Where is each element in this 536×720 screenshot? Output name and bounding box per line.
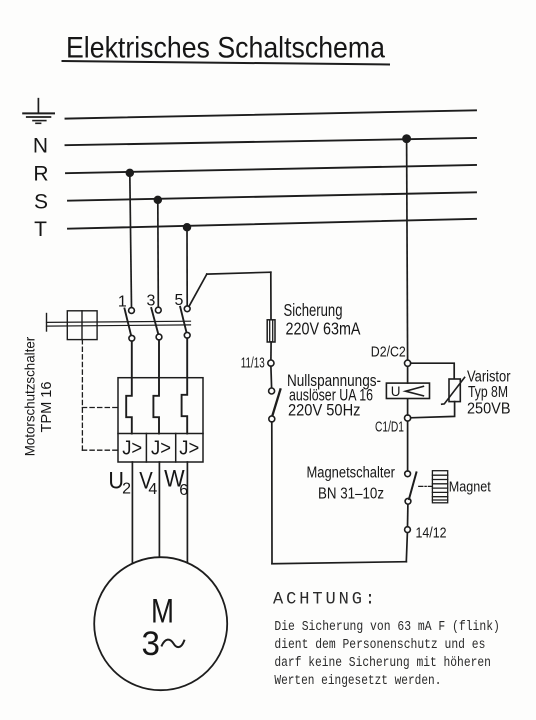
- svg-text:Elektrisches Schaltschema: Elektrisches Schaltschema: [66, 32, 385, 65]
- contact 5 lower terminal: [184, 332, 190, 338]
- svg-text:R: R: [33, 163, 48, 186]
- magnet switch upper terminal: [405, 471, 411, 477]
- wire: 14/12 to magnet switch: [407, 504, 409, 527]
- wire: S drop to contact 3: [157, 200, 160, 307]
- contact 5 upper terminal: [184, 306, 190, 312]
- motor lead V: [158, 462, 160, 557]
- svg-text:6: 6: [179, 482, 188, 499]
- svg-text:J>: J>: [151, 436, 171, 459]
- contact 1 upper terminal: [129, 308, 135, 314]
- svg-text:Varistor: Varistor: [467, 369, 511, 386]
- ground (earth) symbol: [23, 99, 54, 124]
- magnet core symbol: [432, 471, 447, 503]
- auslöser switch blade: [272, 389, 280, 416]
- title: Elektrisches Schaltschema: [66, 32, 385, 65]
- svg-text:BN 31–10z: BN 31–10z: [318, 486, 384, 503]
- contact 3 lower terminal: [156, 334, 162, 340]
- junction dot on N (right): [403, 135, 410, 142]
- linkage bar lower: [47, 325, 191, 326]
- svg-text:3: 3: [147, 293, 156, 310]
- wire: varistor branch top: [411, 363, 455, 379]
- bus line N: [66, 138, 477, 145]
- dashed trip linkage to thermal box: [82, 407, 118, 409]
- contact 3 upper terminal: [155, 307, 161, 313]
- svg-text:220V 50Hz: 220V 50Hz: [288, 400, 361, 419]
- svg-text:J>: J>: [179, 436, 199, 459]
- dashed trip linkage to J> row: [82, 449, 118, 451]
- wire: 11/13 to switch: [270, 366, 273, 388]
- junction dot on S: [154, 197, 161, 204]
- actuator box divider: [81, 311, 83, 340]
- contact 3 blade: [151, 308, 158, 334]
- label V4: [139, 467, 157, 498]
- svg-text:C1/D1: C1/D1: [375, 420, 404, 436]
- thermal element phase 1: [126, 341, 132, 433]
- svg-text:2: 2: [122, 481, 131, 498]
- svg-text:Die Sicherung von 63 mA F (fli: Die Sicherung von 63 mA F (flink): [274, 619, 500, 635]
- magnet switch lower terminal: [405, 498, 411, 504]
- wire: fuse to terminal 11/13: [270, 342, 272, 360]
- title underline: [63, 61, 390, 65]
- linkage left cap: [46, 314, 48, 332]
- wire: T drop to contact 5: [186, 227, 188, 306]
- svg-text:4: 4: [148, 481, 157, 498]
- wire: varistor branch bottom: [411, 402, 455, 418]
- wire: magnet switch up to C1/D1: [407, 422, 409, 471]
- fuse F1 body: [267, 320, 275, 342]
- junction dot on T: [184, 224, 191, 231]
- magnet switch blade: [409, 472, 416, 499]
- node D2/C2: [405, 360, 411, 366]
- svg-text:J>: J>: [122, 436, 142, 459]
- bus line R: [66, 165, 476, 173]
- label U2: [108, 468, 131, 498]
- varistor diagonal: [442, 377, 465, 404]
- svg-text:dient dem Personenschutz und e: dient dem Personenschutz und es: [274, 637, 485, 653]
- svg-text:3: 3: [142, 625, 161, 663]
- svg-text:Magnetschalter: Magnetschalter: [307, 465, 396, 482]
- motor lead W: [186, 462, 188, 563]
- wire: bottom rail: [272, 562, 406, 564]
- svg-text:Motorschutzschalter: Motorschutzschalter: [23, 336, 38, 456]
- J> row divider 2: [175, 434, 177, 463]
- node C1/D1: [405, 415, 411, 421]
- svg-text:Werten eingesetzt werden.: Werten eingesetzt werden.: [274, 673, 441, 689]
- thermal relay box: [118, 378, 203, 462]
- svg-text:Typ 8M: Typ 8M: [468, 384, 508, 401]
- wire: horizontal to fuse: [207, 272, 271, 274]
- linkage bar upper: [47, 321, 191, 322]
- motor lead U: [131, 462, 133, 564]
- svg-text:U: U: [391, 384, 401, 399]
- terminal 11/13: [268, 360, 274, 366]
- svg-text:darf keine Sicherung mit höher: darf keine Sicherung mit höheren: [274, 655, 491, 671]
- fuse F1 element line: [269, 321, 271, 342]
- wire: switch down to bottom rail: [271, 422, 273, 564]
- svg-text:220V 63mA: 220V 63mA: [286, 319, 361, 339]
- svg-text:11/13: 11/13: [241, 356, 265, 372]
- bus line PE (top, from ground): [66, 110, 477, 118]
- J> row divider 1: [145, 434, 147, 463]
- J> row top line: [118, 433, 203, 435]
- svg-text:Sicherung: Sicherung: [284, 300, 343, 320]
- svg-text:D2/C2: D2/C2: [371, 344, 406, 360]
- dashed trip linkage vertical: [81, 340, 83, 451]
- wire: R drop to contact 1: [130, 173, 132, 308]
- svg-text:S: S: [34, 191, 48, 214]
- junction dot on R: [126, 170, 133, 177]
- terminal 14/12: [405, 527, 411, 533]
- undervoltage release coil U< box: [386, 383, 429, 398]
- bus line S: [68, 192, 476, 200]
- actuator box of Motorschutzschalter: [67, 311, 97, 340]
- thermal element phase 3: [182, 338, 188, 433]
- contact 1 lower terminal: [129, 335, 135, 341]
- svg-text:TPM 16: TPM 16: [39, 382, 55, 433]
- wire: up to 14/12: [406, 533, 407, 562]
- thermal element phase 2: [153, 340, 159, 434]
- bus line T: [68, 219, 476, 229]
- wire: contact 5 to fuse branch (diagonal): [189, 274, 207, 306]
- coil < symbol: [406, 386, 424, 396]
- svg-text:1: 1: [118, 294, 127, 311]
- svg-text:ACHTUNG:: ACHTUNG:: [273, 589, 378, 609]
- auslöser switch lower terminal: [269, 416, 275, 422]
- svg-text:T: T: [34, 218, 47, 241]
- magnet actuation dash-dot link: [419, 485, 433, 487]
- wire: coil to D2/C2: [407, 366, 409, 383]
- motor M1 circle: [94, 557, 227, 690]
- contact 1 blade: [125, 309, 132, 336]
- contact 5 blade: [180, 307, 186, 332]
- svg-text:14/12: 14/12: [416, 526, 447, 542]
- svg-text:N: N: [33, 135, 48, 158]
- svg-text:250VB: 250VB: [467, 401, 511, 418]
- wire: C1/D1 up to U< coil: [407, 399, 409, 416]
- varistor R1 body: [449, 379, 460, 402]
- label W6: [164, 466, 188, 500]
- motor label wave: [162, 640, 184, 648]
- svg-text:Magnet: Magnet: [449, 480, 491, 496]
- svg-text:5: 5: [175, 292, 184, 309]
- auslöser switch upper terminal: [269, 388, 275, 394]
- wire: down to fuse: [270, 272, 272, 320]
- wire: N drop to D2/C2: [407, 139, 408, 360]
